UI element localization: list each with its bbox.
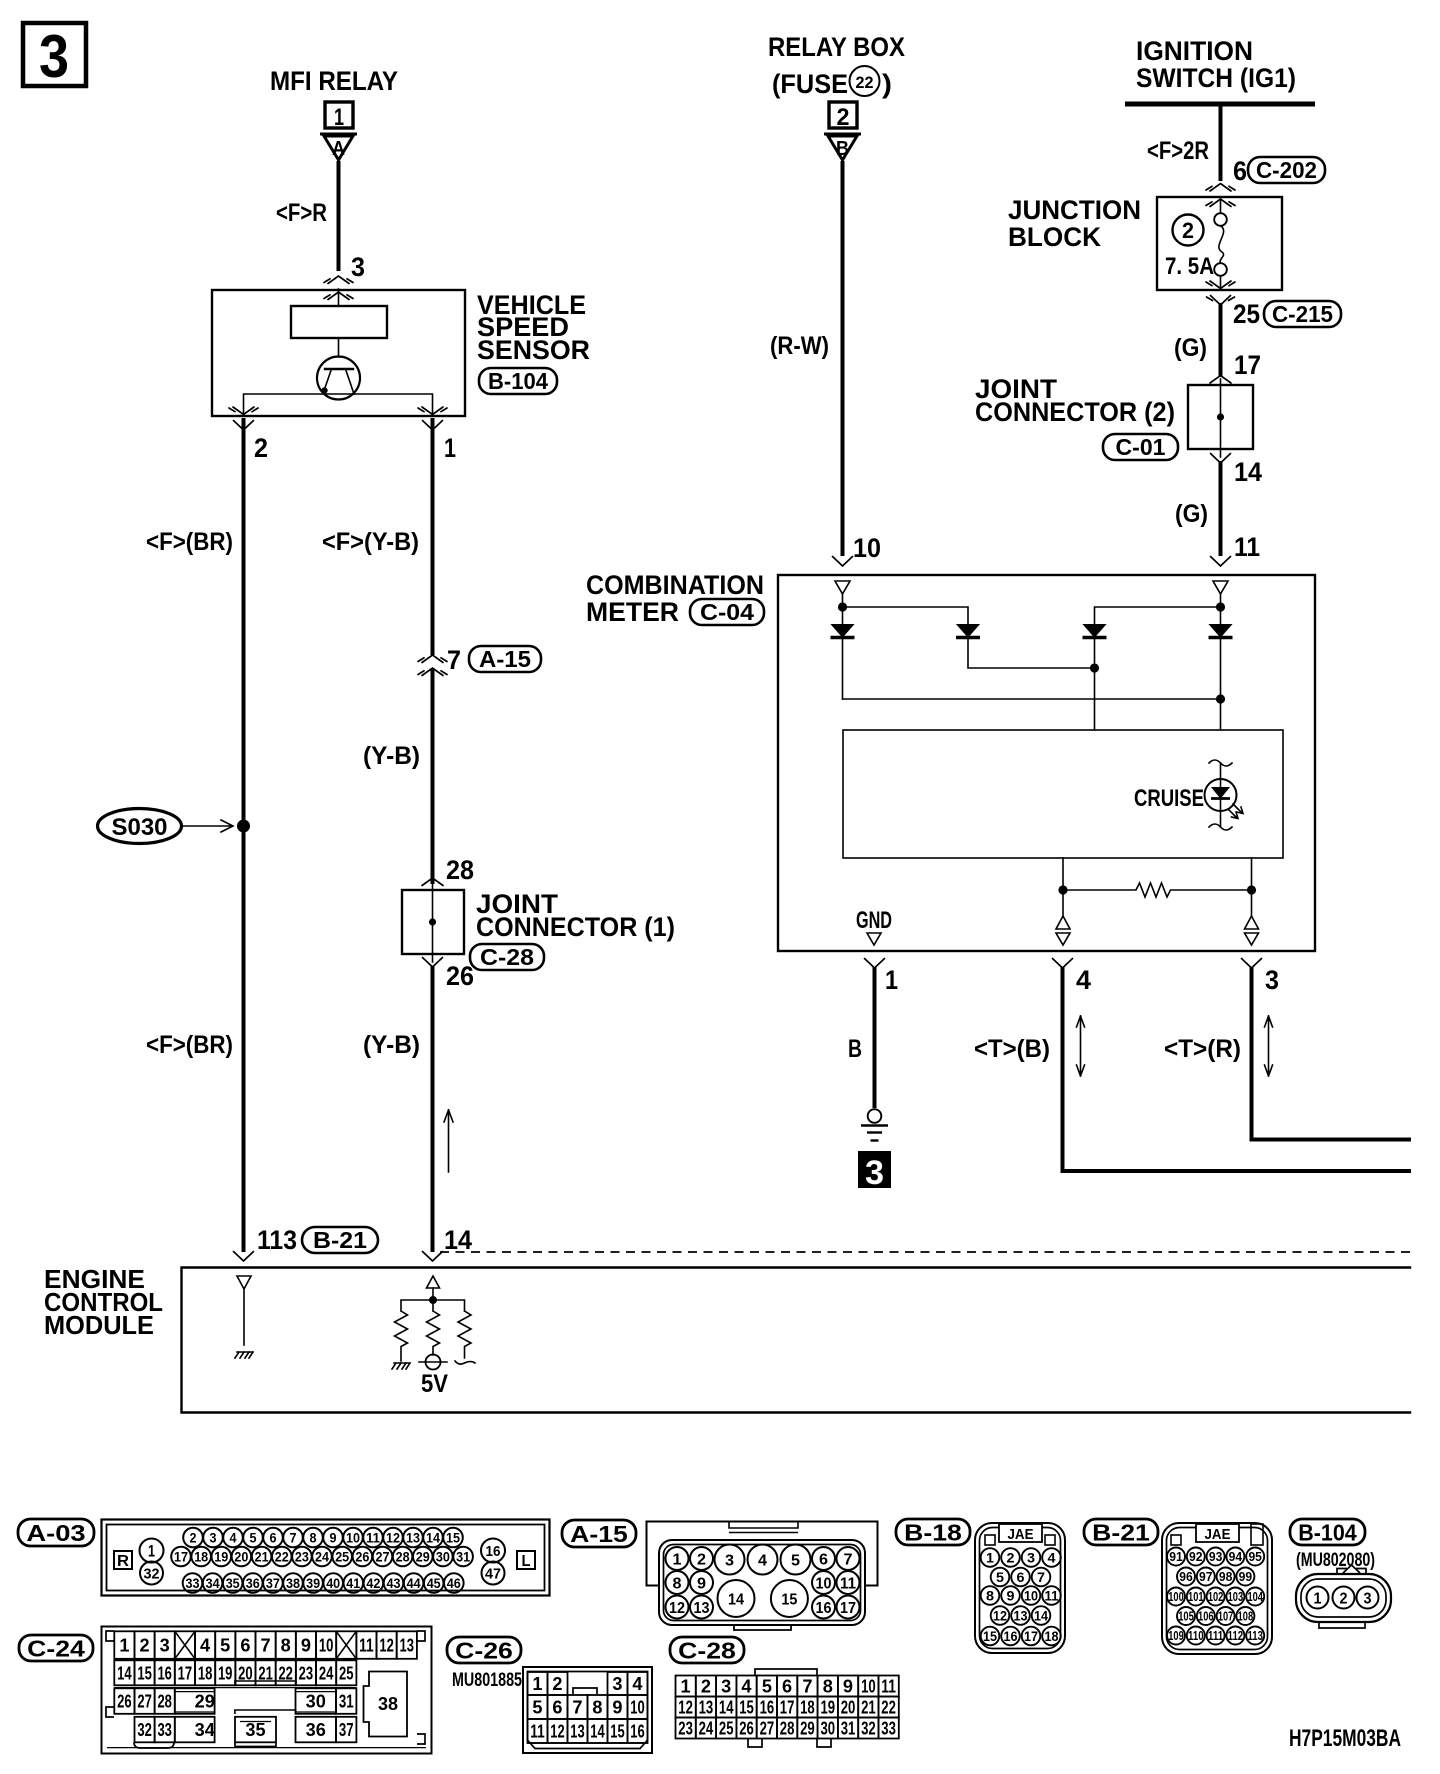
VSS internal bus wire: [244, 394, 433, 416]
JUNCTION BLOCK label: [1008, 195, 1141, 252]
svg-text:2: 2: [190, 1530, 197, 1546]
chevron VSS pin1 exit: [418, 407, 447, 415]
C-24 bottom tabs: [134, 1742, 174, 1748]
svg-text:22: 22: [881, 1698, 896, 1718]
svg-text:A-15: A-15: [570, 1521, 628, 1547]
svg-text:28: 28: [780, 1719, 795, 1739]
svg-text:25: 25: [335, 1549, 349, 1565]
B-21 pin 103: [1226, 1588, 1244, 1606]
connector code A-15: [469, 646, 541, 672]
chassis ground: [861, 1109, 888, 1140]
svg-text:107: 107: [1218, 1609, 1234, 1624]
svg-text:3: 3: [160, 1636, 170, 1656]
svg-text:(G): (G): [1175, 500, 1208, 528]
svg-text:<F>(BR): <F>(BR): [146, 528, 233, 556]
svg-text:4: 4: [200, 1636, 210, 1656]
svg-text:34: 34: [195, 1720, 215, 1740]
svg-text:13: 13: [1014, 1608, 1028, 1624]
svg-text:16: 16: [157, 1663, 172, 1683]
wire junction block to JC2: [1219, 303, 1223, 377]
wire node10 to diode2: [843, 607, 969, 624]
IGNITION SWITCH label: [1136, 36, 1296, 93]
svg-text:34: 34: [206, 1575, 220, 1591]
node pin10: [838, 602, 847, 611]
junction block box: [1157, 197, 1282, 290]
diode D3: [1083, 625, 1107, 731]
svg-text:1: 1: [119, 1636, 129, 1656]
svg-text:1: 1: [334, 104, 344, 131]
B-21 pin 105: [1177, 1607, 1195, 1625]
svg-text:GND: GND: [856, 907, 892, 934]
cruise indicator LED: [1205, 760, 1244, 830]
svg-text:7: 7: [447, 645, 461, 675]
svg-text:41: 41: [346, 1575, 360, 1591]
A-15 pin 1: [666, 1547, 689, 1570]
lead inner box to node3: [1251, 858, 1253, 890]
svg-text:2: 2: [140, 1636, 150, 1656]
svg-text:3: 3: [612, 1674, 622, 1694]
svg-text:24: 24: [315, 1549, 329, 1565]
svg-text:14: 14: [117, 1663, 132, 1683]
B-18 pin 16: [1001, 1627, 1020, 1646]
B-21 pin 111: [1207, 1627, 1225, 1645]
connector B-21 body: [1162, 1523, 1272, 1654]
svg-text:15: 15: [137, 1663, 152, 1683]
svg-text:C-24: C-24: [27, 1635, 85, 1661]
svg-text:16: 16: [816, 1600, 832, 1617]
svg-text:26: 26: [355, 1549, 369, 1565]
A-03 pins 17-31: [171, 1547, 191, 1567]
svg-text:33: 33: [881, 1719, 896, 1739]
svg-text:32: 32: [137, 1720, 152, 1740]
connector B-104 body: [1337, 1569, 1366, 1575]
wire JC2 to meter pin 11: [1219, 461, 1223, 556]
svg-text:23: 23: [295, 1549, 309, 1565]
A-15 pin 11: [837, 1571, 860, 1594]
svg-text:20: 20: [234, 1549, 248, 1565]
svg-text:113: 113: [257, 1225, 297, 1255]
junction block lead: [1220, 199, 1222, 213]
svg-text:15: 15: [739, 1698, 754, 1718]
B-21 pin 99: [1236, 1568, 1254, 1586]
svg-text:3: 3: [1027, 1550, 1035, 1566]
svg-text:6: 6: [1233, 156, 1247, 186]
wire A-15 to JC1: [431, 668, 435, 884]
svg-text:32: 32: [144, 1565, 160, 1582]
C-24 pin row 1: [114, 1631, 134, 1659]
svg-text:R: R: [117, 1553, 129, 1570]
connector code B-21: [302, 1227, 378, 1253]
B-21 JAE box: [1196, 1524, 1239, 1542]
svg-text:6: 6: [1017, 1569, 1025, 1585]
B-21 pin 98: [1217, 1568, 1235, 1586]
svg-text:6: 6: [782, 1677, 792, 1697]
dashed separator line: [440, 1251, 1410, 1253]
svg-text:100: 100: [1168, 1589, 1184, 1604]
C-24 pin 38: [364, 1672, 408, 1737]
svg-text:96: 96: [1179, 1569, 1193, 1584]
svg-text:17: 17: [178, 1663, 193, 1683]
svg-text:99: 99: [1239, 1569, 1253, 1584]
svg-text:14: 14: [719, 1698, 734, 1718]
svg-text:15: 15: [610, 1722, 624, 1742]
svg-text:2: 2: [1340, 1590, 1348, 1607]
svg-text:B-104: B-104: [488, 368, 548, 394]
svg-text:B: B: [848, 1035, 862, 1063]
svg-text:1: 1: [673, 1551, 682, 1568]
A-15 pin 13: [690, 1596, 713, 1619]
junction block lead lower: [1220, 276, 1222, 290]
ECM resistor bus: [401, 1288, 465, 1311]
A-15 pin 17: [837, 1596, 860, 1619]
svg-text:109: 109: [1168, 1628, 1184, 1643]
connector code C-01: [1103, 434, 1178, 460]
svg-text:17: 17: [780, 1698, 795, 1718]
svg-text:L: L: [522, 1553, 531, 1570]
svg-text:11: 11: [881, 1677, 896, 1697]
connector C-26 body: [523, 1667, 652, 1753]
svg-text:H7P15M03BA: H7P15M03BA: [1289, 1725, 1401, 1752]
svg-text:10: 10: [346, 1530, 360, 1546]
svg-text:B-21: B-21: [313, 1227, 367, 1253]
B-21 pin 113: [1246, 1627, 1264, 1645]
chevron inside junction block top: [1206, 199, 1235, 207]
B-21 pin 108: [1236, 1607, 1254, 1625]
svg-text:12: 12: [550, 1722, 564, 1742]
JOINT CONNECTOR (1) label: [476, 889, 675, 942]
svg-text:7. 5A: 7. 5A: [1165, 253, 1214, 280]
A-03 pin L: [517, 1551, 535, 1569]
svg-text:14: 14: [1034, 1608, 1048, 1624]
chevron above VSS box: [324, 276, 353, 284]
svg-text:3: 3: [725, 1552, 734, 1569]
svg-text:27: 27: [137, 1692, 152, 1712]
connector C-24 label: [19, 1635, 93, 1661]
node S030: [98, 809, 234, 844]
fork ECM pin 14: [423, 1252, 443, 1262]
lead node3 to terminal: [1251, 890, 1253, 916]
svg-text:9: 9: [330, 1530, 337, 1546]
svg-text:106: 106: [1198, 1609, 1214, 1624]
connector B-18 label: [896, 1519, 970, 1545]
ECM pin113 terminal triangle: [237, 1276, 251, 1289]
svg-text:11: 11: [840, 1575, 856, 1592]
svg-text:14: 14: [728, 1591, 744, 1608]
svg-text:SENSOR: SENSOR: [477, 335, 590, 365]
svg-text:C-28: C-28: [480, 944, 534, 970]
svg-text:2: 2: [701, 1677, 711, 1697]
B-18 pin 1: [981, 1548, 1000, 1567]
node diode2-3 junction: [1090, 663, 1099, 672]
svg-text:<T>(R): <T>(R): [1164, 1035, 1241, 1063]
B-18 pin 17: [1022, 1627, 1041, 1646]
C-24 pin row 4: [135, 1717, 155, 1743]
C-24 row3 ledge: [235, 1681, 296, 1686]
svg-text:47: 47: [485, 1565, 501, 1582]
svg-text:10: 10: [630, 1698, 644, 1718]
B-21 pin 94: [1226, 1548, 1244, 1566]
svg-text:37: 37: [266, 1575, 280, 1591]
wire VSS pin1 down: [431, 418, 435, 655]
C-26 key tab: [573, 1688, 597, 1694]
connector B-21 label: [1084, 1519, 1158, 1545]
svg-text:11: 11: [1234, 532, 1260, 562]
svg-text:35: 35: [226, 1575, 240, 1591]
svg-text:5: 5: [532, 1698, 542, 1718]
wire VSS pin2 to ECM 113: [242, 418, 246, 1252]
svg-text:12: 12: [993, 1608, 1007, 1624]
svg-text:14: 14: [590, 1722, 604, 1742]
terminal triangles pin 4: [1056, 916, 1070, 945]
diode D4: [1209, 607, 1233, 730]
ECM internal ground lead: [243, 1289, 245, 1345]
A-03 pins 33-46: [183, 1573, 203, 1593]
svg-text:JAE: JAE: [1008, 1526, 1034, 1543]
connector A-03 body: [102, 1520, 550, 1596]
B-18 pin 8: [981, 1586, 1000, 1605]
svg-text:1: 1: [1314, 1590, 1322, 1607]
svg-text:111: 111: [1208, 1628, 1224, 1643]
svg-text:1: 1: [148, 1542, 155, 1561]
svg-text:38: 38: [286, 1575, 300, 1591]
svg-text:16: 16: [630, 1722, 644, 1742]
svg-text:25: 25: [719, 1719, 734, 1739]
svg-text:8: 8: [592, 1698, 602, 1718]
diode D2: [956, 625, 1095, 669]
resistor R-mid: [427, 1311, 440, 1355]
B-18 pin 7: [1032, 1568, 1051, 1587]
chevron inside VSS box top: [324, 292, 353, 300]
connector code C-28: [470, 944, 544, 970]
B-21 pin 92: [1187, 1548, 1205, 1566]
svg-text:101: 101: [1188, 1589, 1204, 1604]
A-03 pin R: [114, 1551, 132, 1569]
joint connector 1 box C-28: [402, 884, 464, 962]
twist arrow pin3: [1265, 1016, 1273, 1076]
wire meter pin4 right: [1063, 967, 1412, 1171]
svg-text:14: 14: [1234, 457, 1262, 487]
connector B-104 label: [1290, 1519, 1365, 1545]
svg-text:39: 39: [306, 1575, 320, 1591]
meter inner unit box: [843, 730, 1283, 858]
JOINT CONNECTOR (2) label: [975, 374, 1175, 427]
svg-text:44: 44: [407, 1575, 421, 1591]
B-104 pin 2: [1333, 1587, 1355, 1609]
A-15 pin 7: [837, 1547, 860, 1570]
svg-text:IGNITION: IGNITION: [1136, 36, 1253, 66]
svg-text:MODULE: MODULE: [44, 1310, 154, 1340]
A-15 pin 5: [781, 1545, 811, 1575]
node above pin 4: [1058, 885, 1067, 894]
A-15 pin 16: [812, 1596, 835, 1619]
fork below VSS pin1: [423, 421, 443, 431]
svg-text:8: 8: [281, 1636, 291, 1656]
svg-text:13: 13: [699, 1698, 714, 1718]
svg-text:35: 35: [245, 1720, 265, 1740]
svg-text:5: 5: [220, 1636, 230, 1656]
svg-text:25: 25: [339, 1663, 354, 1683]
GND terminal triangle: [867, 933, 881, 945]
svg-text:27: 27: [376, 1549, 390, 1565]
A-03 pin 32: [140, 1562, 163, 1585]
A-15 bottom tab: [734, 1625, 791, 1630]
svg-text:(R-W): (R-W): [770, 332, 829, 360]
svg-text:A: A: [332, 138, 345, 160]
B-21 pin 97: [1197, 1568, 1215, 1586]
svg-text:7: 7: [1037, 1569, 1045, 1585]
wire meter pin3 right: [1252, 967, 1412, 1140]
A-15 pin 10: [812, 1571, 835, 1594]
svg-text:C-04: C-04: [700, 599, 754, 625]
svg-text:1: 1: [444, 433, 456, 463]
B-104 pin 1: [1307, 1587, 1329, 1609]
svg-text:29: 29: [195, 1692, 215, 1712]
B-18 pin 18: [1042, 1627, 1061, 1646]
node diode4 branch: [1216, 694, 1225, 703]
svg-text:9: 9: [612, 1698, 622, 1718]
lead node4 to terminal: [1062, 890, 1064, 916]
fork meter pin 3: [1242, 959, 1262, 969]
A-03 pin 1: [140, 1539, 164, 1563]
svg-text:28: 28: [446, 855, 474, 885]
chevron above junction block: [1206, 184, 1235, 192]
wire diode1 to diode4 branch: [843, 698, 1221, 700]
svg-text:8: 8: [310, 1530, 317, 1546]
connector A-15 chevrons on wire: [418, 655, 447, 663]
svg-text:1: 1: [681, 1677, 691, 1697]
svg-text:20: 20: [841, 1698, 856, 1718]
svg-text:15: 15: [781, 1591, 797, 1608]
B-21 pin 109: [1167, 1627, 1185, 1645]
svg-text:19: 19: [821, 1698, 836, 1718]
fork meter pin 11: [1211, 557, 1231, 567]
svg-text:46: 46: [447, 1575, 461, 1591]
svg-text:94: 94: [1229, 1549, 1243, 1564]
svg-text:7: 7: [290, 1530, 297, 1546]
svg-text:2: 2: [254, 433, 268, 463]
svg-text:5V: 5V: [421, 1370, 448, 1398]
B-21 pin 96: [1177, 1568, 1195, 1586]
svg-text:31: 31: [339, 1692, 354, 1712]
svg-text:7: 7: [572, 1698, 582, 1718]
svg-text:23: 23: [299, 1663, 314, 1683]
svg-text:13: 13: [570, 1722, 584, 1742]
B-18 pin 4: [1042, 1548, 1061, 1567]
svg-text:18: 18: [1045, 1628, 1059, 1644]
svg-text:16: 16: [486, 1543, 501, 1560]
svg-text:24: 24: [699, 1719, 714, 1739]
svg-text:8: 8: [986, 1588, 994, 1604]
svg-text:98: 98: [1219, 1569, 1233, 1584]
C-28 top tab: [755, 1669, 817, 1675]
A-03 pins 2-15: [183, 1528, 203, 1548]
svg-text:26: 26: [117, 1692, 132, 1712]
svg-text:37: 37: [339, 1720, 354, 1740]
B-18 pin 6: [1011, 1568, 1030, 1587]
C-26 pin row 2: [528, 1695, 548, 1719]
svg-text:13: 13: [406, 1530, 420, 1546]
svg-text:6: 6: [270, 1530, 277, 1546]
svg-text:26: 26: [739, 1719, 754, 1739]
svg-text:RELAY BOX: RELAY BOX: [768, 32, 905, 62]
wire JC1 to ECM 14: [431, 966, 435, 1252]
B-18 pin 14: [1032, 1606, 1051, 1625]
terminal triangles pin 3: [1245, 916, 1259, 945]
wire IG1 to junction block: [1219, 104, 1223, 181]
VEHICLE SPEED SENSOR label: [477, 290, 590, 365]
svg-text:18: 18: [198, 1663, 213, 1683]
B-18 key notches: [985, 1535, 995, 1545]
svg-text:33: 33: [157, 1720, 172, 1740]
svg-text:9: 9: [843, 1677, 853, 1697]
svg-text:C-202: C-202: [1256, 157, 1317, 183]
svg-text:<T>(B): <T>(B): [974, 1035, 1050, 1063]
A-15 pin 14: [718, 1580, 755, 1617]
svg-text:31: 31: [841, 1719, 856, 1739]
svg-text:(FUSE: (FUSE: [772, 69, 848, 99]
svg-text:12: 12: [386, 1530, 400, 1546]
svg-text:38: 38: [378, 1694, 398, 1714]
svg-text:17: 17: [1024, 1628, 1038, 1644]
svg-text:12: 12: [379, 1636, 394, 1656]
fork below junction block: [1207, 296, 1235, 306]
svg-text:16: 16: [1004, 1628, 1018, 1644]
svg-text:8: 8: [673, 1575, 682, 1592]
VSS sensor circle symbol: [317, 357, 360, 400]
B-18 pin 10: [1022, 1586, 1041, 1605]
svg-text:40: 40: [326, 1575, 340, 1591]
C-24 inner strip lines: [107, 1688, 426, 1748]
fork meter pin 1: [865, 959, 885, 969]
svg-text:93: 93: [1209, 1549, 1223, 1564]
svg-text:43: 43: [387, 1575, 401, 1591]
svg-text:29: 29: [416, 1549, 430, 1565]
svg-text:27: 27: [760, 1719, 775, 1739]
svg-text:1: 1: [885, 965, 898, 995]
fork below VSS pin2: [234, 421, 254, 431]
connector B-18 body: [975, 1523, 1065, 1653]
joint connector 2 box C-01: [1188, 379, 1253, 457]
MFI relay triangle A: [320, 134, 357, 160]
svg-text:15: 15: [446, 1530, 460, 1546]
B-18 pin 12: [991, 1606, 1010, 1625]
svg-text:13: 13: [400, 1636, 415, 1656]
svg-text:14: 14: [444, 1225, 472, 1255]
connector C-26 label: [447, 1637, 521, 1663]
fork meter pin 10: [833, 557, 853, 567]
svg-text:5: 5: [250, 1530, 257, 1546]
5V source circle: [419, 1355, 448, 1399]
lead pin10 to node: [842, 594, 844, 607]
svg-text:112: 112: [1228, 1628, 1244, 1643]
ECM pin14 terminal triangle: [427, 1276, 440, 1288]
resistor between pins 4 and 3: [1063, 883, 1252, 897]
svg-text:10: 10: [853, 533, 881, 563]
B-18 pin 9: [1001, 1586, 1020, 1605]
svg-text:C-215: C-215: [1272, 301, 1333, 327]
B-21 pin 95: [1246, 1548, 1264, 1566]
svg-text:102: 102: [1208, 1589, 1224, 1604]
svg-text:JUNCTION: JUNCTION: [1008, 195, 1141, 225]
lead pin11 to node: [1220, 594, 1222, 607]
svg-text:2: 2: [837, 104, 850, 131]
svg-text:28: 28: [396, 1549, 410, 1565]
svg-text:36: 36: [246, 1575, 260, 1591]
svg-text:25: 25: [1233, 299, 1260, 329]
svg-text:S030: S030: [112, 814, 168, 841]
chevron below JC2: [1211, 454, 1231, 464]
B-21 key notches: [1171, 1535, 1181, 1545]
